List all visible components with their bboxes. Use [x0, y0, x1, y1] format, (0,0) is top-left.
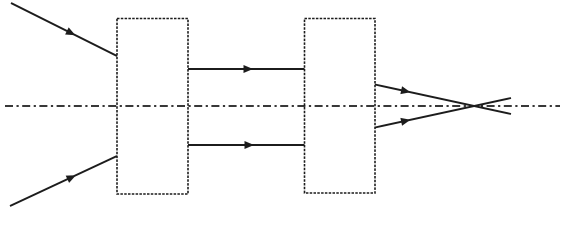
exit ray upper (converging): [375, 85, 511, 115]
arrowhead on incoming ray bottom-left: [66, 172, 78, 183]
lens box 1 (dashed rectangle): [117, 19, 188, 195]
incoming ray bottom-left: [10, 156, 117, 206]
middle ray upper (horizontal): [188, 68, 305, 70]
optical axis (dash-dot centerline): [5, 105, 560, 107]
incoming ray top-left: [11, 3, 117, 56]
exit ray lower (converging): [375, 98, 511, 128]
arrowhead on middle ray lower: [245, 141, 255, 149]
lens box 2 (dashed rectangle): [305, 19, 376, 194]
arrowhead on exit ray lower: [400, 116, 411, 126]
arrowhead on middle ray upper: [244, 65, 254, 73]
arrowhead on exit ray upper: [400, 86, 411, 96]
arrowhead on incoming ray top-left: [65, 27, 77, 38]
middle ray lower (horizontal): [188, 144, 305, 146]
